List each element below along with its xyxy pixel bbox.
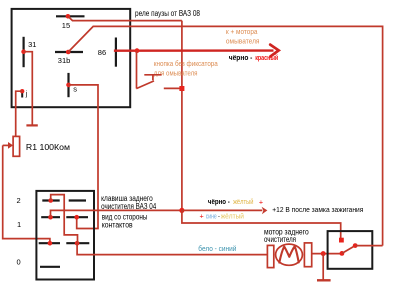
node row3 right dot xyxy=(75,241,80,246)
wire button right contact xyxy=(164,87,182,89)
svg-text:+: + xyxy=(259,197,263,206)
svg-text:+12 В после замка зажигания: +12 В после замка зажигания xyxy=(272,205,363,214)
node row1 left dot xyxy=(48,198,53,203)
node row2 right dot xyxy=(74,215,79,220)
switch row1 left contact xyxy=(42,199,59,201)
motor M1 body xyxy=(276,244,303,265)
svg-text:1: 1 xyxy=(17,220,21,229)
svg-text:для омывателя: для омывателя xyxy=(154,68,198,77)
pin j xyxy=(21,93,23,98)
ground bar motor xyxy=(317,279,331,281)
switch row1 right contact xyxy=(69,199,86,201)
switch row3 left contact xyxy=(39,242,60,244)
node +12V junction dot xyxy=(179,208,184,213)
limit switch blade xyxy=(342,246,355,254)
node limit switch upper contact square xyxy=(339,238,344,243)
svg-text:очистителя ВАЗ 04: очистителя ВАЗ 04 xyxy=(101,202,157,211)
pin s xyxy=(67,73,69,97)
node pin j dot xyxy=(20,89,24,93)
svg-text:j: j xyxy=(25,91,28,98)
svg-text:31: 31 xyxy=(28,40,36,49)
wire pin s to switch row2 right xyxy=(69,85,99,229)
wire pin86 black-red arrow to washer motor + xyxy=(114,49,274,52)
wire wiper to switch row3 left xyxy=(3,145,50,243)
ground lead motor xyxy=(322,254,324,280)
limit switch box xyxy=(328,231,373,269)
ground chassis bar of pin31 xyxy=(26,124,37,126)
svg-text:омывателя: омывателя xyxy=(226,37,260,46)
switch row2 left contact xyxy=(41,216,60,218)
wire pin31b diagonal up xyxy=(68,26,382,245)
node row2 left dot xyxy=(48,215,53,220)
motor M1 letter xyxy=(279,246,298,262)
arrowhead +12V xyxy=(262,207,268,215)
wire +12V arrow xyxy=(182,209,262,211)
pin 86 xyxy=(115,38,117,67)
wire sine-yellow from junction to limit switch xyxy=(182,210,341,240)
svg-text:жёлтый: жёлтый xyxy=(233,198,253,206)
button SB1 cap bar xyxy=(144,74,161,76)
wire button left lead xyxy=(136,51,138,89)
svg-text:0: 0 xyxy=(17,258,21,267)
pin 31 xyxy=(23,37,25,67)
arrowhead black-red wire xyxy=(270,45,279,57)
svg-text:к + мотора: к + мотора xyxy=(226,27,258,36)
svg-text:сине: сине xyxy=(206,213,217,220)
switch row2 right contact xyxy=(66,216,88,218)
motor M1 right brush xyxy=(304,243,311,267)
node pin31 dot xyxy=(21,49,26,54)
pin 15 xyxy=(56,15,85,17)
svg-text:очистителя: очистителя xyxy=(264,235,296,244)
wire row3 right to motor xyxy=(77,243,267,254)
wire pin31 to chassis bar xyxy=(24,52,33,125)
button SB1 blade xyxy=(136,81,154,89)
svg-text:контактов: контактов xyxy=(102,220,133,229)
switch row3 right contact xyxy=(66,242,89,244)
svg-text:R1 100Ком: R1 100Ком xyxy=(26,143,70,152)
button SB1 cap stem xyxy=(152,75,154,80)
node motor ground junction dot xyxy=(321,251,326,256)
node limit switch right contact dot xyxy=(353,243,358,248)
node pin31b dot xyxy=(66,50,71,55)
wire motor to limit switch junction xyxy=(312,253,342,255)
wire row2 left to +12V junction xyxy=(51,210,182,217)
svg-text:бело - синий: бело - синий xyxy=(198,244,236,253)
svg-text:2: 2 xyxy=(17,196,21,205)
svg-text:+: + xyxy=(200,211,204,220)
switch row4 contact xyxy=(40,266,60,268)
node pin15 dot xyxy=(66,14,71,19)
pin 31b xyxy=(55,51,83,53)
svg-text:86: 86 xyxy=(98,48,106,57)
node pin s dot xyxy=(66,83,71,88)
R1 wiper arrow xyxy=(3,144,9,146)
svg-text:реле паузы от ВАЗ 08: реле паузы от ВАЗ 08 xyxy=(135,9,200,18)
svg-text:жёлтый: жёлтый xyxy=(221,212,244,220)
svg-text:красный: красный xyxy=(255,53,278,62)
R1 wiper arrowhead xyxy=(8,142,13,149)
svg-text:кнопка без фиксатора: кнопка без фиксатора xyxy=(154,59,218,68)
resistor R1 body xyxy=(13,136,20,156)
svg-text:s: s xyxy=(73,85,77,94)
wire switch internal row1 to row3 right xyxy=(51,195,78,244)
wire pin15 to +washer-motor line xyxy=(68,16,182,20)
node button junction dot xyxy=(135,48,140,53)
wire limit switch to right riser xyxy=(355,245,382,247)
svg-text:чёрно -: чёрно - xyxy=(229,53,253,62)
svg-text:31b: 31b xyxy=(58,56,71,65)
relay K1 box xyxy=(12,9,131,107)
node row3 left dot xyxy=(48,241,53,246)
node limit switch blade pivot dot xyxy=(340,251,345,256)
switch S1 box xyxy=(36,191,94,280)
wire long vertical from pin15 line down xyxy=(181,21,183,211)
node button right square dot xyxy=(179,86,184,91)
motor M1 left brush xyxy=(267,245,273,267)
wire pin j to R1 xyxy=(16,91,23,136)
svg-text:чёрно -: чёрно - xyxy=(208,197,230,206)
svg-text:15: 15 xyxy=(62,21,70,30)
